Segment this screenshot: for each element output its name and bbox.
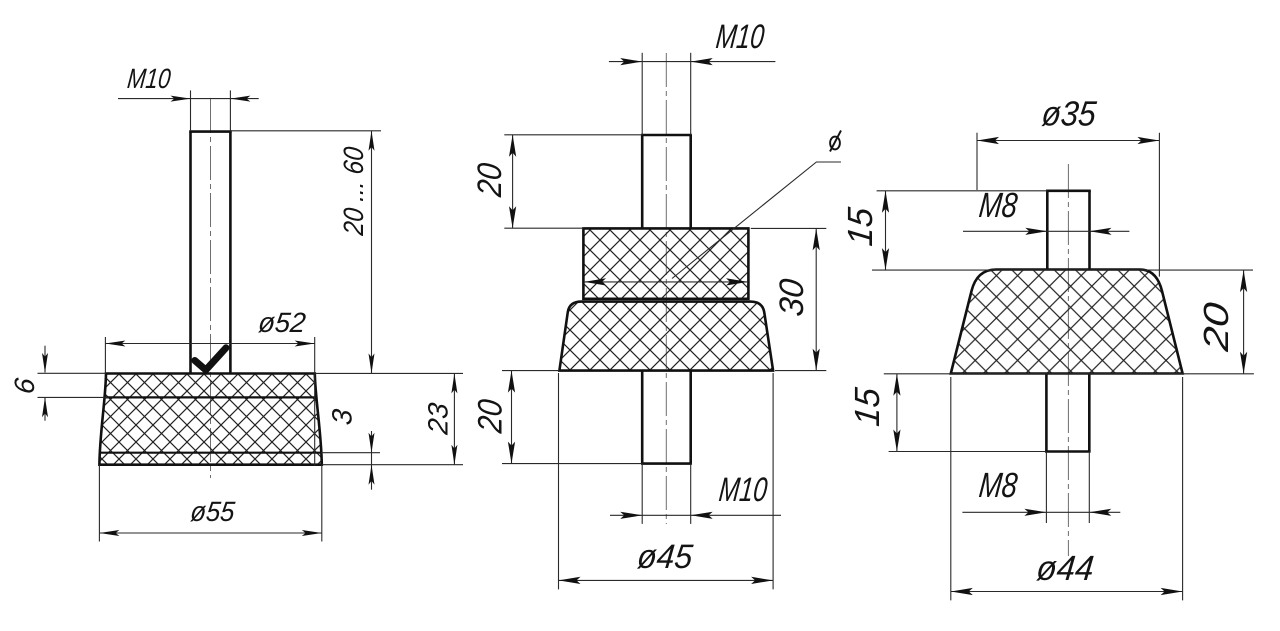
centerline fig1	[210, 99, 212, 478]
checkmark fig1	[195, 348, 226, 370]
disc inner layer line 1 fig1	[105, 396, 316, 398]
svg-text:ø52: ø52	[257, 307, 308, 338]
svg-text:M10: M10	[714, 18, 766, 56]
svg-text:15: 15	[848, 386, 887, 429]
bottom stud fig2	[641, 371, 692, 464]
stud fig1	[189, 132, 232, 374]
svg-text:ø55: ø55	[189, 496, 237, 527]
svg-text:M10: M10	[126, 63, 173, 94]
bottom stud fig3	[1045, 374, 1091, 452]
svg-text:15: 15	[841, 205, 880, 248]
dimension 15 top fig3	[841, 191, 889, 270]
dimension 6 fig1	[9, 346, 107, 421]
dimension 20 right fig3	[884, 270, 1254, 374]
svg-text:20: 20	[471, 161, 509, 199]
dimension 3 fig1	[321, 407, 380, 489]
lower rubber dome fig2 (hatched)	[559, 302, 773, 371]
dimension d35 fig3	[977, 95, 1159, 277]
dimension d45 fig2	[559, 373, 774, 589]
rubber disc body fig1 (hatched)	[99, 374, 321, 465]
dimension 20...60 fig1	[230, 131, 381, 374]
svg-text:M10: M10	[717, 471, 769, 509]
stud top extension fig3	[877, 190, 1048, 192]
dimension d55 fig1	[99, 465, 321, 542]
dimension 23 fig1	[315, 373, 463, 464]
top stud fig3	[1046, 191, 1091, 270]
svg-text:ø35: ø35	[1040, 95, 1099, 134]
dimension 20 bottom fig2	[472, 371, 642, 464]
disc inner layer line 2 fig1	[101, 452, 321, 454]
dimension M8 bottom fig3	[962, 452, 1120, 524]
dimension M10 bottom fig2	[610, 464, 781, 524]
dimension 20 top fig2	[471, 135, 642, 228]
centerline fig3	[1067, 164, 1069, 556]
upper rubber block fig2 (hatched)	[583, 228, 748, 298]
dimension d44 fig3	[951, 377, 1183, 600]
dimension M8 top fig3	[963, 186, 1129, 235]
top stud fig2	[641, 135, 692, 228]
svg-text:M8: M8	[977, 466, 1019, 505]
dimension M10 fig1	[118, 63, 259, 131]
svg-text:M8: M8	[977, 186, 1019, 225]
svg-text:ø44: ø44	[1035, 549, 1096, 588]
rubber dome fig3 (hatched)	[951, 270, 1183, 374]
dimension 30 fig2	[751, 228, 827, 370]
svg-text:6: 6	[9, 376, 40, 395]
svg-text:23: 23	[423, 401, 454, 437]
dimension M10 top fig2	[609, 18, 776, 135]
svg-text:20 ... 60: 20 ... 60	[338, 145, 369, 237]
dimension 15 bottom fig3	[848, 374, 900, 452]
svg-text:20: 20	[1197, 300, 1236, 354]
dimension d52 fig1	[105, 307, 314, 466]
svg-text:30: 30	[773, 277, 811, 318]
svg-text:3: 3	[327, 407, 358, 426]
stud bottom extension fig3	[889, 451, 1047, 453]
svg-text:ø45: ø45	[635, 538, 695, 576]
svg-text:20: 20	[472, 398, 510, 436]
centerline fig2	[665, 53, 667, 524]
internal diameter dimension with leader fig2	[584, 131, 841, 286]
dome top extension fig3	[872, 269, 1253, 271]
